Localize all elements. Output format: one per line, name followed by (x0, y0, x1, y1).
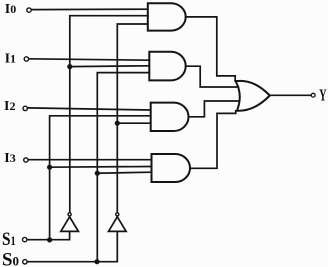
AND gate U4 (I1 term) (149, 52, 185, 81)
junction S1 to AND4 middle input (47, 165, 52, 170)
inverter U1 (S1 not) (61, 213, 79, 232)
wire S1 to AND4 middle input (50, 166, 152, 169)
wire I0 to AND1 top input (32, 8, 148, 10)
terminal I2 (23, 106, 27, 110)
OR gate U7 (236, 81, 270, 111)
svg-text:I3: I3 (4, 151, 15, 166)
terminal S0 (23, 260, 27, 264)
wire S1' vertical riser to AND1 middle input (70, 16, 148, 213)
terminal I3 (24, 158, 28, 162)
wire S0 horizontal to inverter U2 input (28, 232, 118, 262)
wire AND2 output to OR input 2 (186, 66, 239, 87)
AND gate U3 (I0 term) (148, 3, 186, 30)
inverter U2 (S0 not) (109, 213, 127, 232)
junction S0' to AND3 bottom input (115, 121, 120, 126)
wire S1 horizontal to inverter U1 input (27, 232, 69, 240)
junction S0 tap (94, 259, 99, 264)
junction S1 tap (47, 237, 52, 242)
wire AND4 output to OR input 4 (190, 111, 236, 169)
wire OR output to Y terminal (270, 94, 311, 96)
wire S1 vertical riser to AND3 middle input (50, 116, 151, 240)
svg-text:S1: S1 (2, 229, 16, 250)
junction S0 to AND4 bottom input (95, 171, 100, 176)
wire I3 to AND4 top input (29, 159, 152, 161)
svg-text:I0: I0 (5, 2, 16, 17)
terminal Y (311, 93, 315, 97)
terminal I0 (27, 8, 31, 12)
wire AND3 output to OR input 3 (189, 101, 239, 117)
terminal S1 (23, 237, 27, 241)
svg-text:S0: S0 (2, 249, 19, 267)
wire S1' to AND2 middle input (70, 65, 150, 68)
AND gate U6 (I3 term) (152, 154, 191, 182)
wire S0' to AND3 bottom input (117, 122, 150, 124)
AND gate U5 (I2 term) (151, 103, 189, 131)
wire I1 to AND2 top input (29, 59, 149, 60)
svg-text:Y: Y (319, 86, 326, 105)
junction S1' to AND2 middle input (67, 64, 72, 69)
wire AND1 output to OR input 1 (186, 17, 238, 81)
wire S0 to AND4 bottom input (97, 172, 151, 173)
wire I2 to AND3 top input (28, 108, 151, 110)
svg-text:I2: I2 (4, 99, 15, 114)
wire S0 vertical riser to AND2 bottom input (97, 73, 149, 262)
wire S0' vertical riser to AND1 bottom input (117, 24, 148, 213)
terminal I1 (24, 57, 28, 61)
svg-text:I1: I1 (5, 51, 16, 66)
